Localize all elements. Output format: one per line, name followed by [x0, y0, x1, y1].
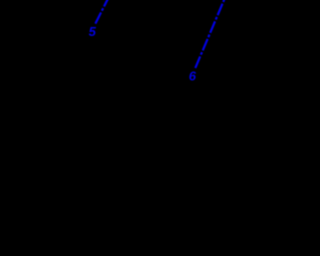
svg-text:6: 6: [189, 68, 197, 83]
curve line-style 5 (bigdash-dot): [95, 0, 108, 24]
svg-text:5: 5: [89, 24, 97, 39]
curve line-style 6 (bigdash-longdash): [195, 0, 225, 68]
